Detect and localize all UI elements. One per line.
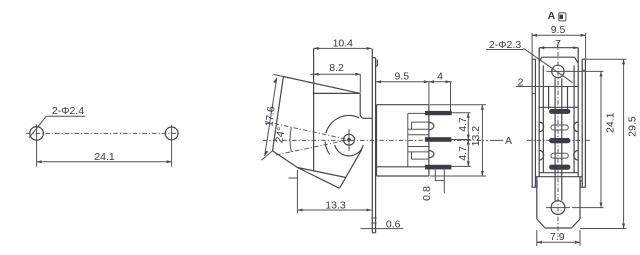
svg-text:24.1: 24.1 xyxy=(94,151,115,163)
dimension 7.9 xyxy=(537,230,580,246)
svg-text:24.1: 24.1 xyxy=(605,112,617,133)
svg-text:A: A xyxy=(548,10,556,22)
hole circle right xyxy=(165,125,178,142)
inner cavity chamfered top xyxy=(539,57,578,173)
terminal 1 xyxy=(425,111,451,115)
svg-text:9.5: 9.5 xyxy=(551,24,566,36)
rocker top edge xyxy=(283,77,360,94)
svg-text:17.6: 17.6 xyxy=(263,106,277,128)
terminal slot 1 (dark) xyxy=(550,109,571,113)
body internal ladder xyxy=(408,113,429,166)
svg-text:A: A xyxy=(505,135,512,147)
terminal 1 hook xyxy=(429,122,434,129)
bezel top edge xyxy=(314,92,361,94)
label 2-dia2.3 with leader xyxy=(486,39,573,83)
wall bumps xyxy=(539,122,579,160)
terminal slot 2 (dark) xyxy=(550,138,571,142)
svg-text:7.9: 7.9 xyxy=(550,231,565,243)
central rib xyxy=(549,78,568,200)
section label A (middle) xyxy=(490,135,512,147)
dimension 9.5 right view xyxy=(532,24,586,59)
pivot circle xyxy=(344,129,355,151)
bottom tab xyxy=(537,177,580,228)
dimension 4.7 / 4.7 xyxy=(451,113,471,167)
rocker right edge xyxy=(340,149,362,188)
svg-text:4.7: 4.7 xyxy=(457,146,469,161)
svg-text:4.7: 4.7 xyxy=(457,117,469,132)
svg-text:0.6: 0.6 xyxy=(386,219,401,231)
left view center line xyxy=(26,132,181,134)
internal shelf lines xyxy=(535,107,582,176)
bottom mounting hole xyxy=(546,201,570,215)
hole circle left xyxy=(30,125,44,143)
svg-text:13.3: 13.3 xyxy=(325,200,346,212)
svg-text:29.5: 29.5 xyxy=(627,116,639,137)
dimension 0.8 xyxy=(421,170,444,201)
right view top cap xyxy=(539,48,578,177)
bezel-to-flange step xyxy=(364,117,372,119)
housing lower-left arc xyxy=(325,142,330,155)
vent slot 1 xyxy=(551,125,568,130)
terminal 3 xyxy=(425,165,451,169)
svg-text:0.8: 0.8 xyxy=(421,186,433,201)
svg-text:13.2: 13.2 xyxy=(470,126,482,147)
dimension 29.5 right view xyxy=(580,59,639,228)
dimension 2 right view xyxy=(516,70,586,94)
dimension 9.5 and 4 top xyxy=(376,70,452,111)
svg-text:2-Φ2.4: 2-Φ2.4 xyxy=(52,105,84,117)
svg-text:10.4: 10.4 xyxy=(333,37,354,49)
svg-text:4: 4 xyxy=(437,70,443,82)
svg-text:8.2: 8.2 xyxy=(329,62,344,74)
rocker lower-left corner cut xyxy=(273,151,298,168)
dimension 24.1 right view xyxy=(567,71,617,207)
label 2-dia2.4 with leader xyxy=(29,105,85,138)
bezel left edge / extension xyxy=(313,48,315,171)
terminal slot 3 (dark) xyxy=(550,165,571,169)
switch body outline xyxy=(377,105,429,176)
flange plate xyxy=(372,49,377,233)
terminal 2 xyxy=(425,138,451,142)
vent slot 2 xyxy=(551,153,568,158)
dimension 24.1 left view xyxy=(37,142,172,167)
middle view horizontal center line xyxy=(263,139,488,141)
right view horizontal center line xyxy=(527,139,590,141)
rocker left edge xyxy=(273,77,284,151)
dimension 7 right view xyxy=(539,38,578,53)
svg-text:9.5: 9.5 xyxy=(394,70,409,82)
dimension 17.6 xyxy=(262,75,284,161)
dimension 8.2 xyxy=(310,62,360,93)
bezel right edge xyxy=(360,93,364,118)
top mounting hole xyxy=(546,65,570,77)
housing upper arc xyxy=(326,115,359,133)
right view mounting strips xyxy=(532,59,585,187)
dimension 13.3 xyxy=(289,170,372,214)
dimension 0.6 flange thickness xyxy=(361,218,404,231)
angle arc 24 deg xyxy=(290,128,291,153)
view label A with symbol xyxy=(548,10,566,22)
dimension 13.2 xyxy=(430,105,486,176)
dimension 10.4 xyxy=(314,37,372,50)
right view vertical center line xyxy=(557,42,559,237)
strip feet xyxy=(532,181,587,187)
lower angle ray xyxy=(276,140,349,155)
rocker barrel arc xyxy=(335,145,364,156)
tilted center line (rocker axis) xyxy=(265,122,349,140)
rocker bottom edges xyxy=(297,168,346,189)
terminal 2 hook xyxy=(429,151,434,158)
